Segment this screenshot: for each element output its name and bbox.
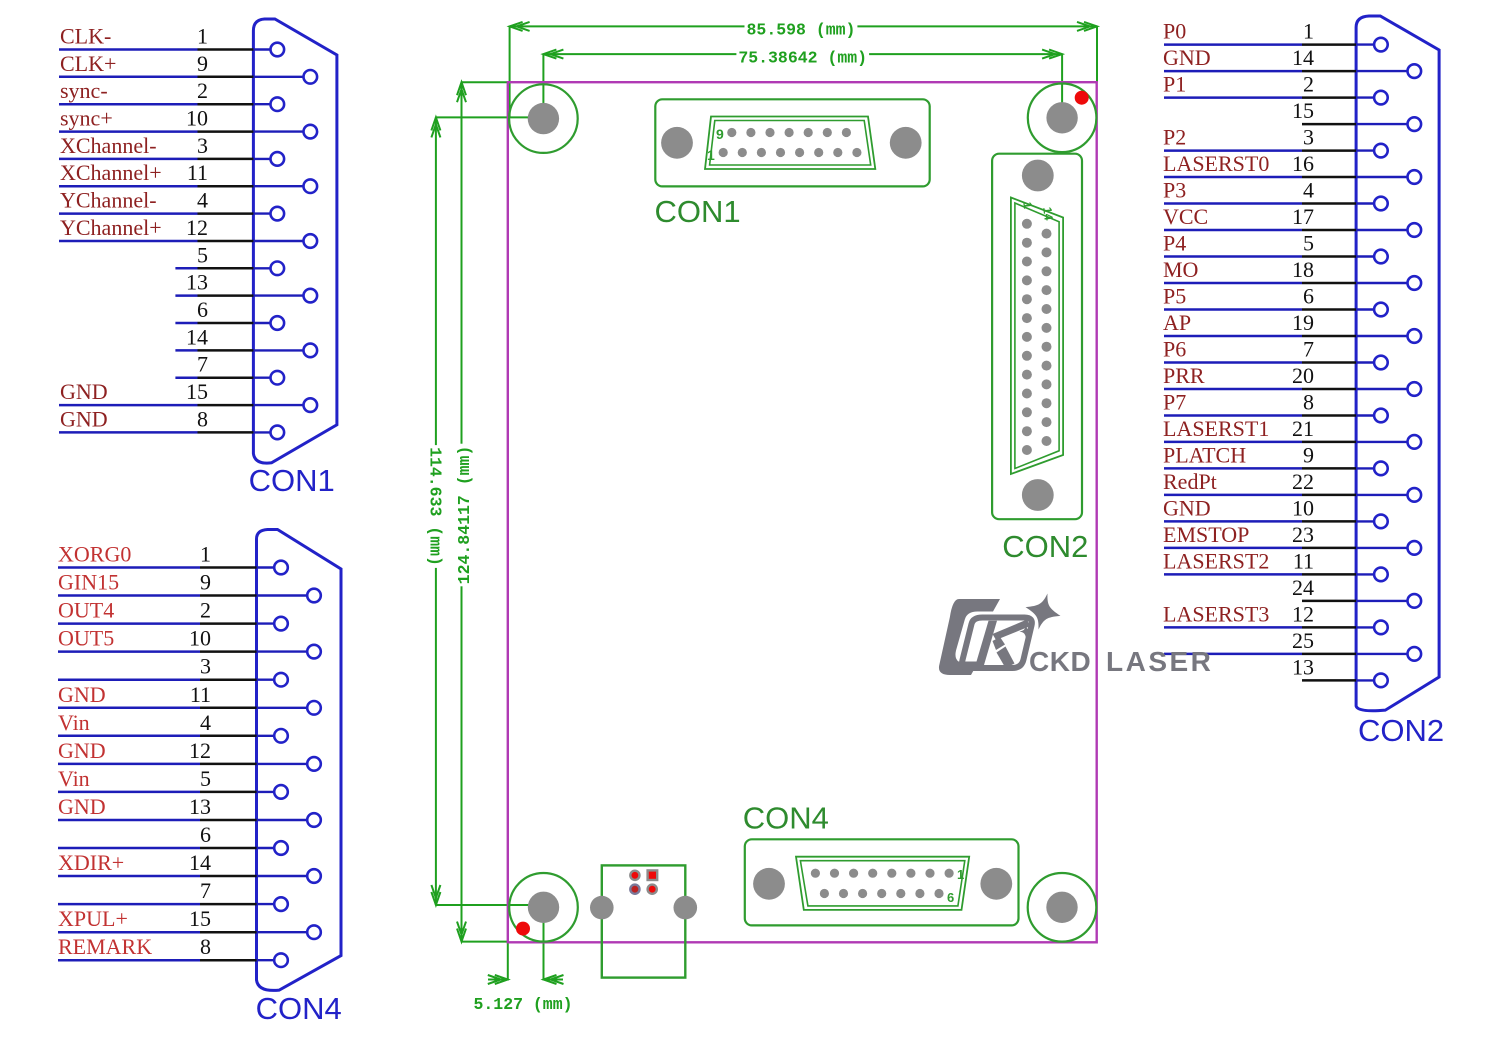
svg-text:2: 2 (1303, 72, 1314, 97)
svg-text:4: 4 (1303, 178, 1314, 203)
svg-text:21: 21 (1292, 416, 1314, 441)
svg-text:9: 9 (197, 51, 208, 76)
CON1 pin 1 (253, 43, 284, 57)
USB connector footprint (602, 865, 686, 977)
USB mounting pad left (590, 896, 614, 920)
svg-text:REMARK: REMARK (58, 934, 152, 959)
svg-text:2: 2 (200, 598, 211, 623)
CON2 pin 14 (1356, 64, 1421, 78)
svg-text:8: 8 (200, 934, 211, 959)
CON2 pin 1 (1356, 38, 1388, 52)
CON1 pin 8 (253, 426, 284, 440)
USB mounting pad right (674, 896, 698, 920)
wire net pin 5 to CON1 pin 5 (175, 267, 253, 270)
wire net OUT5 to CON4 pin 10 (58, 650, 257, 653)
CON4 pin 14 (257, 869, 321, 883)
svg-text:7: 7 (200, 878, 211, 903)
svg-text:GND: GND (1163, 495, 1211, 520)
svg-text:13: 13 (186, 270, 208, 295)
CON2 pin 4 (1356, 197, 1388, 211)
svg-text:5: 5 (197, 242, 208, 267)
wire net P0 to CON2 pin 1 (1164, 43, 1356, 46)
svg-text:18: 18 (1292, 257, 1314, 282)
CON2 pin 15 (1356, 117, 1421, 131)
svg-text:CON2: CON2 (1358, 713, 1444, 748)
svg-text:P4: P4 (1163, 231, 1186, 256)
svg-text:P1: P1 (1163, 72, 1186, 97)
wire net pin 14 to CON1 pin 14 (175, 349, 253, 352)
CON1 pin 5 (253, 262, 284, 276)
CON1 pin 7 (253, 371, 284, 385)
svg-text:17: 17 (1292, 204, 1314, 229)
svg-text:1: 1 (197, 24, 208, 49)
wire net GIN15 to CON4 pin 9 (58, 594, 257, 597)
wire net GND to CON2 pin 14 (1164, 70, 1356, 73)
dimension 114.633 mm (hole spacing vertical) (426, 117, 544, 905)
CON2 pin 12 (1356, 621, 1388, 635)
dimension 5.127 mm (hole offset) (473, 907, 572, 1014)
svg-text:124.84117 (mm): 124.84117 (mm) (455, 446, 474, 585)
PCB board outline (508, 82, 1097, 942)
CON1 pin 15 (253, 398, 317, 412)
svg-text:10: 10 (186, 106, 208, 131)
CON2 pin 23 (1356, 541, 1421, 555)
wire net MO to CON2 pin 18 (1164, 282, 1356, 285)
CON2 footprint body on board (992, 154, 1082, 520)
connector CON2 D-sub shell (1356, 16, 1439, 711)
svg-text:1: 1 (200, 542, 211, 567)
svg-text:11: 11 (190, 682, 211, 707)
svg-text:OUT4: OUT4 (58, 598, 114, 623)
svg-text:3: 3 (200, 654, 211, 679)
CON1 pins row 1-8 (719, 148, 862, 157)
svg-text:PLATCH: PLATCH (1163, 442, 1246, 467)
dimension 75.38642 mm (hole spacing) (543, 47, 1062, 119)
svg-text:Vin: Vin (58, 710, 90, 735)
wire net XChannel+ to CON1 pin 11 (59, 185, 253, 188)
CON4 pin 13 (257, 813, 321, 827)
svg-text:LASERST1: LASERST1 (1163, 416, 1269, 441)
CON2 footprint screw hole top (1022, 160, 1054, 192)
CON1 pin 11 (253, 179, 317, 193)
CON2 pin 3 (1356, 144, 1388, 158)
CKD logo small sparkle (1020, 625, 1033, 638)
svg-text:YChannel+: YChannel+ (60, 215, 162, 240)
CON4 pin 12 (257, 757, 321, 771)
CON1 pins row 9-15 (727, 128, 851, 137)
wire net pin 25 to CON2 pin 25 (1164, 653, 1356, 656)
mounting hole top-left (509, 84, 578, 153)
svg-text:14: 14 (186, 324, 208, 349)
svg-text:CLK-: CLK- (60, 24, 111, 49)
svg-text:1: 1 (957, 867, 964, 882)
wire net OUT4 to CON4 pin 2 (58, 622, 257, 625)
svg-text:P2: P2 (1163, 125, 1186, 150)
CKD LASER logo text (1029, 646, 1213, 677)
svg-text:CON1: CON1 (655, 194, 741, 229)
svg-text:6: 6 (197, 297, 208, 322)
svg-text:GIN15: GIN15 (58, 570, 119, 595)
svg-text:XDIR+: XDIR+ (58, 850, 124, 875)
wire net Vin to CON4 pin 4 (58, 735, 257, 738)
CKD logo emblem letter C (939, 599, 1000, 675)
dimension 124.84117 mm (board height) (453, 82, 508, 941)
svg-text:20: 20 (1292, 363, 1314, 388)
svg-text:GND: GND (58, 738, 106, 763)
wire net sync+ to CON1 pin 10 (59, 130, 253, 133)
wire net XDIR+ to CON4 pin 14 (58, 875, 257, 878)
svg-text:11: 11 (187, 160, 208, 185)
CON4 pin 11 (257, 701, 321, 715)
svg-text:PRR: PRR (1163, 363, 1205, 388)
svg-text:YChannel-: YChannel- (60, 188, 157, 213)
svg-text:12: 12 (186, 215, 208, 240)
svg-text:sync+: sync+ (60, 106, 113, 131)
CKD logo emblem K plate with lightning bolt (962, 618, 1032, 669)
wire net Vin to CON4 pin 5 (58, 791, 257, 794)
wire net LASERST0 to CON2 pin 16 (1164, 176, 1356, 179)
wire net pin 3 to CON4 pin 3 (58, 678, 257, 681)
svg-text:14: 14 (1292, 45, 1314, 70)
CON2 D-sub face outline (1011, 198, 1063, 475)
CON2 pin 13 (1356, 674, 1388, 688)
svg-text:12: 12 (1292, 601, 1314, 626)
svg-text:11: 11 (1293, 548, 1314, 573)
wire net VCC to CON2 pin 17 (1164, 229, 1356, 232)
svg-text:15: 15 (189, 906, 211, 931)
CON4 pin 3 (257, 673, 288, 687)
svg-text:19: 19 (1292, 310, 1314, 335)
CON2 pin 2 (1356, 91, 1388, 105)
wire net sync- to CON1 pin 2 (59, 103, 253, 106)
dimension 85.598 mm (board width) (510, 19, 1097, 118)
CON4 pin 4 (257, 729, 288, 743)
svg-text:XChannel+: XChannel+ (60, 160, 162, 185)
CON4 pin 1 (257, 561, 288, 575)
wire net YChannel+ to CON1 pin 12 (59, 240, 253, 243)
wire net P3 to CON2 pin 4 (1164, 202, 1356, 205)
wire net P7 to CON2 pin 8 (1164, 414, 1356, 417)
svg-text:9: 9 (1303, 442, 1314, 467)
CON1 pin 3 (253, 152, 284, 166)
svg-text:24: 24 (1292, 575, 1314, 600)
svg-text:7: 7 (197, 352, 208, 377)
wire net pin 13 to CON1 pin 13 (175, 294, 253, 297)
svg-text:10: 10 (189, 626, 211, 651)
red fiducial dot top-right (1075, 91, 1089, 105)
svg-text:XPUL+: XPUL+ (58, 906, 128, 931)
wire net P4 to CON2 pin 5 (1164, 255, 1356, 258)
CON4 footprint screw hole left (753, 868, 785, 900)
CON1 pin 10 (253, 125, 317, 139)
svg-text:2: 2 (197, 78, 208, 103)
svg-text:LASERST2: LASERST2 (1163, 548, 1269, 573)
svg-text:4: 4 (197, 188, 208, 213)
CKD logo sparkle star (1021, 589, 1065, 634)
wire net PRR to CON2 pin 20 (1164, 388, 1356, 391)
CON2 pin 6 (1356, 303, 1388, 317)
CON4 pin 2 (257, 617, 288, 631)
wire net CLK- to CON1 pin 1 (59, 48, 253, 51)
CON1 footprint body on board (655, 99, 929, 186)
svg-text:23: 23 (1292, 522, 1314, 547)
CON2 pin 10 (1356, 515, 1388, 529)
CON2 pin 22 (1356, 488, 1421, 502)
svg-text:P7: P7 (1163, 390, 1186, 415)
CON4 pins row 1-8 (811, 869, 954, 878)
CON1 footprint screw hole left (661, 127, 693, 159)
wire net LASERST3 to CON2 pin 12 (1164, 626, 1356, 629)
CON1 pin 6 (253, 316, 284, 330)
CON4 pin 5 (257, 785, 288, 799)
svg-text:Vin: Vin (58, 766, 90, 791)
CON4 pins row 9-15 (820, 889, 944, 898)
svg-text:85.598 (mm): 85.598 (mm) (747, 20, 856, 39)
wire net P6 to CON2 pin 7 (1164, 361, 1356, 364)
CON4 pin 15 (257, 925, 321, 939)
CON2 pin 17 (1356, 223, 1421, 237)
mounting hole bottom-left (509, 873, 578, 942)
CON4 pin 10 (257, 645, 321, 659)
svg-text:VCC: VCC (1163, 204, 1208, 229)
svg-text:14: 14 (1040, 206, 1056, 221)
wire net CLK+ to CON1 pin 9 (59, 76, 253, 79)
svg-text:CON4: CON4 (743, 800, 829, 835)
svg-text:P3: P3 (1163, 178, 1186, 203)
wire net EMSTOP to CON2 pin 23 (1164, 547, 1356, 550)
CON1 footprint screw hole right (890, 127, 922, 159)
CON4 pin 9 (257, 589, 321, 603)
svg-text:LASERST3: LASERST3 (1163, 601, 1269, 626)
svg-text:EMSTOP: EMSTOP (1163, 522, 1249, 547)
CON2 pins column 1-13 (1022, 219, 1032, 455)
svg-text:9: 9 (716, 126, 724, 142)
CON4 footprint body on board (745, 839, 1019, 925)
CON4 pin 8 (257, 953, 288, 967)
CON4 pin 6 (257, 841, 288, 855)
CON4 D-sub face outline (796, 857, 969, 910)
connector CON1 D-sub shell (253, 19, 337, 463)
svg-text:1: 1 (1303, 19, 1314, 44)
svg-text:P0: P0 (1163, 19, 1186, 44)
connector CON4 D-sub shell (257, 530, 342, 991)
svg-text:6: 6 (200, 822, 211, 847)
svg-text:GND: GND (1163, 45, 1211, 70)
CON1 D-sub face outline (705, 117, 875, 170)
wire net YChannel- to CON1 pin 4 (59, 212, 253, 215)
CON2 pin 24 (1356, 594, 1421, 608)
svg-text:16: 16 (1292, 151, 1314, 176)
svg-text:5: 5 (200, 766, 211, 791)
CON2 pin 7 (1356, 356, 1388, 370)
svg-text:P5: P5 (1163, 284, 1186, 309)
wire net pin 7 to CON4 pin 7 (58, 903, 257, 906)
svg-text:CON2: CON2 (1002, 529, 1088, 564)
svg-text:5: 5 (1303, 231, 1314, 256)
svg-text:7: 7 (1303, 337, 1314, 362)
svg-text:6: 6 (947, 890, 954, 905)
mounting hole top-right (1028, 84, 1097, 153)
svg-text:OUT5: OUT5 (58, 626, 114, 651)
mounting hole bottom-right (1028, 873, 1097, 942)
wire net XORG0 to CON4 pin 1 (58, 566, 257, 569)
svg-text:CKD: CKD (1029, 646, 1091, 677)
svg-text:RedPt: RedPt (1163, 469, 1217, 494)
wire net pin 24 to CON2 pin 24 (1302, 600, 1356, 603)
svg-text:25: 25 (1292, 628, 1314, 653)
svg-text:GND: GND (60, 406, 108, 431)
svg-text:75.38642 (mm): 75.38642 (mm) (738, 49, 867, 68)
svg-text:GND: GND (60, 379, 108, 404)
wire net P1 to CON2 pin 2 (1164, 96, 1356, 99)
CON2 pin 11 (1356, 568, 1388, 582)
wire net pin 6 to CON4 pin 6 (58, 847, 257, 850)
CON2 pin 9 (1356, 462, 1388, 476)
svg-text:sync-: sync- (60, 78, 108, 103)
wire net AP to CON2 pin 19 (1164, 335, 1356, 338)
svg-text:13: 13 (1292, 654, 1314, 679)
CON4 pin 7 (257, 897, 288, 911)
wire net REMARK to CON4 pin 8 (58, 959, 257, 962)
wire net GND to CON4 pin 13 (58, 819, 257, 822)
CON1 pin 4 (253, 207, 284, 221)
wire net PLATCH to CON2 pin 9 (1164, 467, 1356, 470)
CON1 pin 12 (253, 234, 317, 248)
wire net P2 to CON2 pin 3 (1164, 149, 1356, 152)
wire net P5 to CON2 pin 6 (1164, 308, 1356, 311)
svg-text:22: 22 (1292, 469, 1314, 494)
svg-text:12: 12 (189, 738, 211, 763)
svg-text:AP: AP (1163, 310, 1191, 335)
CON2 pin 5 (1356, 250, 1388, 264)
CON2 footprint screw hole bottom (1022, 479, 1054, 511)
svg-text:1: 1 (707, 147, 715, 163)
svg-text:CON1: CON1 (249, 463, 335, 498)
wire net pin 7 to CON1 pin 7 (175, 376, 253, 379)
CON1 pin 9 (253, 70, 317, 84)
svg-text:9: 9 (200, 570, 211, 595)
CON2 pin 21 (1356, 435, 1421, 449)
USB signal pads (630, 870, 657, 893)
svg-text:8: 8 (1303, 390, 1314, 415)
wire net pin 13 to CON2 pin 13 (1302, 679, 1356, 682)
CON4 footprint screw hole right (980, 868, 1012, 900)
svg-text:P6: P6 (1163, 337, 1186, 362)
CON2 pin 16 (1356, 170, 1421, 184)
svg-text:114.633 (mm): 114.633 (mm) (426, 447, 445, 566)
wire net GND to CON4 pin 11 (58, 707, 257, 710)
wire net pin 6 to CON1 pin 6 (175, 322, 253, 325)
svg-text:CON4: CON4 (256, 991, 342, 1026)
svg-text:4: 4 (200, 710, 211, 735)
wire net RedPt to CON2 pin 22 (1164, 494, 1356, 497)
svg-text:GND: GND (58, 794, 106, 819)
CON1 pin 14 (253, 344, 317, 358)
svg-text:LASERST0: LASERST0 (1163, 151, 1269, 176)
CON2 pin 8 (1356, 409, 1388, 423)
wire net LASERST2 to CON2 pin 11 (1164, 573, 1356, 576)
CON2 pin 19 (1356, 329, 1421, 343)
svg-text:14: 14 (189, 850, 211, 875)
wire net GND to CON1 pin 8 (59, 431, 253, 434)
CON2 pin 18 (1356, 276, 1421, 290)
CON2 pin 20 (1356, 382, 1421, 396)
svg-text:3: 3 (197, 133, 208, 158)
svg-text:15: 15 (186, 379, 208, 404)
svg-text:CLK+: CLK+ (60, 51, 116, 76)
svg-text:8: 8 (197, 406, 208, 431)
svg-text:GND: GND (58, 682, 106, 707)
wire net XPUL+ to CON4 pin 15 (58, 931, 257, 934)
svg-text:15: 15 (1292, 98, 1314, 123)
svg-text:13: 13 (189, 794, 211, 819)
CON1 pin 13 (253, 289, 317, 303)
wire net LASERST1 to CON2 pin 21 (1164, 441, 1356, 444)
svg-text:LASER: LASER (1106, 646, 1213, 677)
svg-text:6: 6 (1303, 284, 1314, 309)
wire net XChannel- to CON1 pin 3 (59, 158, 253, 161)
CON1 pin 2 (253, 97, 284, 111)
svg-text:10: 10 (1292, 495, 1314, 520)
CON2 pin 25 (1356, 647, 1421, 661)
svg-text:MO: MO (1163, 257, 1198, 282)
svg-text:XChannel-: XChannel- (60, 133, 157, 158)
wire net GND to CON4 pin 12 (58, 763, 257, 766)
wire net pin 15 to CON2 pin 15 (1302, 123, 1356, 126)
svg-text:XORG0: XORG0 (58, 542, 131, 567)
wire net GND to CON2 pin 10 (1164, 520, 1356, 523)
svg-text:5.127 (mm): 5.127 (mm) (473, 995, 572, 1014)
CON2 pins column 14-25 (1042, 229, 1052, 446)
red fiducial dot bottom-left (516, 922, 530, 936)
svg-text:3: 3 (1303, 125, 1314, 150)
wire net GND to CON1 pin 15 (59, 404, 253, 407)
